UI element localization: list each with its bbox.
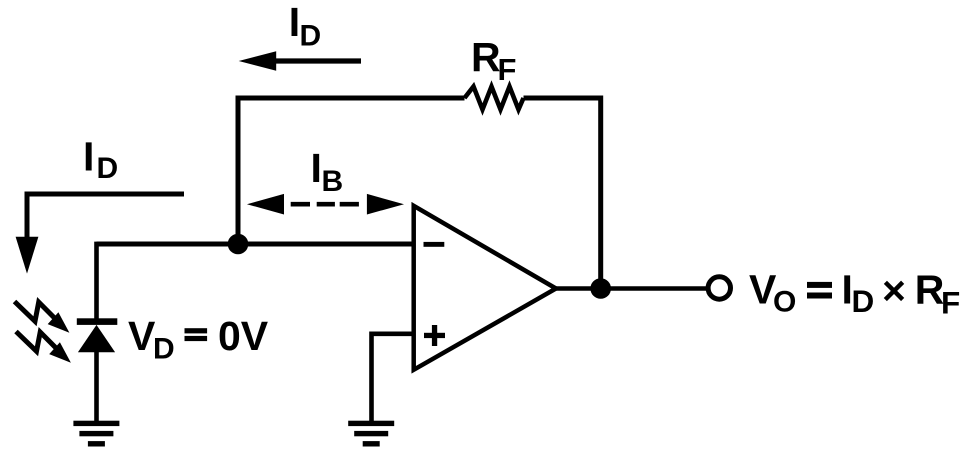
op-amp non-inverting input marker (+) [424, 325, 445, 346]
svg-text:D: D [852, 283, 875, 319]
wire: feedback top-left segment (node to resistor) [238, 98, 465, 246]
wire: op-amp output [556, 286, 707, 291]
output terminal VO (open circle) [708, 277, 730, 299]
svg-text:R: R [915, 267, 945, 313]
current arrow ID (feedback, pointing left) [239, 51, 361, 70]
ground (photodiode) [73, 421, 119, 447]
svg-text:I: I [311, 145, 322, 191]
node: inverting input junction [228, 234, 249, 255]
svg-text:R: R [471, 34, 501, 80]
label ID (photodiode current, left) [83, 134, 118, 186]
svg-text:D: D [97, 152, 119, 185]
svg-text:F: F [941, 285, 960, 321]
current arrow IB (dashed, double-headed) [247, 194, 404, 215]
svg-text:0V: 0V [218, 313, 269, 359]
label VD = 0V (diode voltage) [128, 313, 269, 366]
svg-text:O: O [773, 286, 796, 319]
resistor RF [465, 87, 524, 110]
wire: non-inverting input to ground [372, 334, 414, 421]
op-amp U1 (triangle) [414, 206, 556, 370]
label IB (bias current) [311, 145, 344, 198]
wire: photodiode to inverting input [97, 242, 414, 247]
svg-text:I: I [83, 134, 94, 180]
wire: feedback top-right segment (resistor to output) [524, 98, 601, 289]
label RF (resistor value) [471, 34, 516, 87]
svg-text:I: I [289, 0, 300, 45]
svg-text:D: D [300, 20, 322, 53]
photodiode (cathode bar + triangle) [77, 318, 118, 352]
svg-text:B: B [322, 165, 344, 198]
svg-text:×: × [882, 268, 906, 314]
svg-text:F: F [498, 52, 517, 87]
current arrow ID (photodiode, hooked down) [16, 194, 184, 274]
light arrow 2 (illumination) [16, 332, 71, 363]
svg-text:D: D [153, 333, 175, 366]
wire: photodiode to ground [94, 352, 99, 421]
label ID (feedback current, top) [289, 0, 321, 53]
svg-text:V: V [128, 313, 156, 359]
ground (op-amp non-inverting input) [348, 421, 394, 447]
node: output junction [590, 278, 611, 299]
label VO = ID × RF (output equation) [749, 267, 960, 321]
wire: photodiode anode up-wire [94, 242, 99, 320]
light arrow 1 (illumination) [15, 302, 70, 333]
op-amp inverting input marker (−) [424, 242, 445, 247]
